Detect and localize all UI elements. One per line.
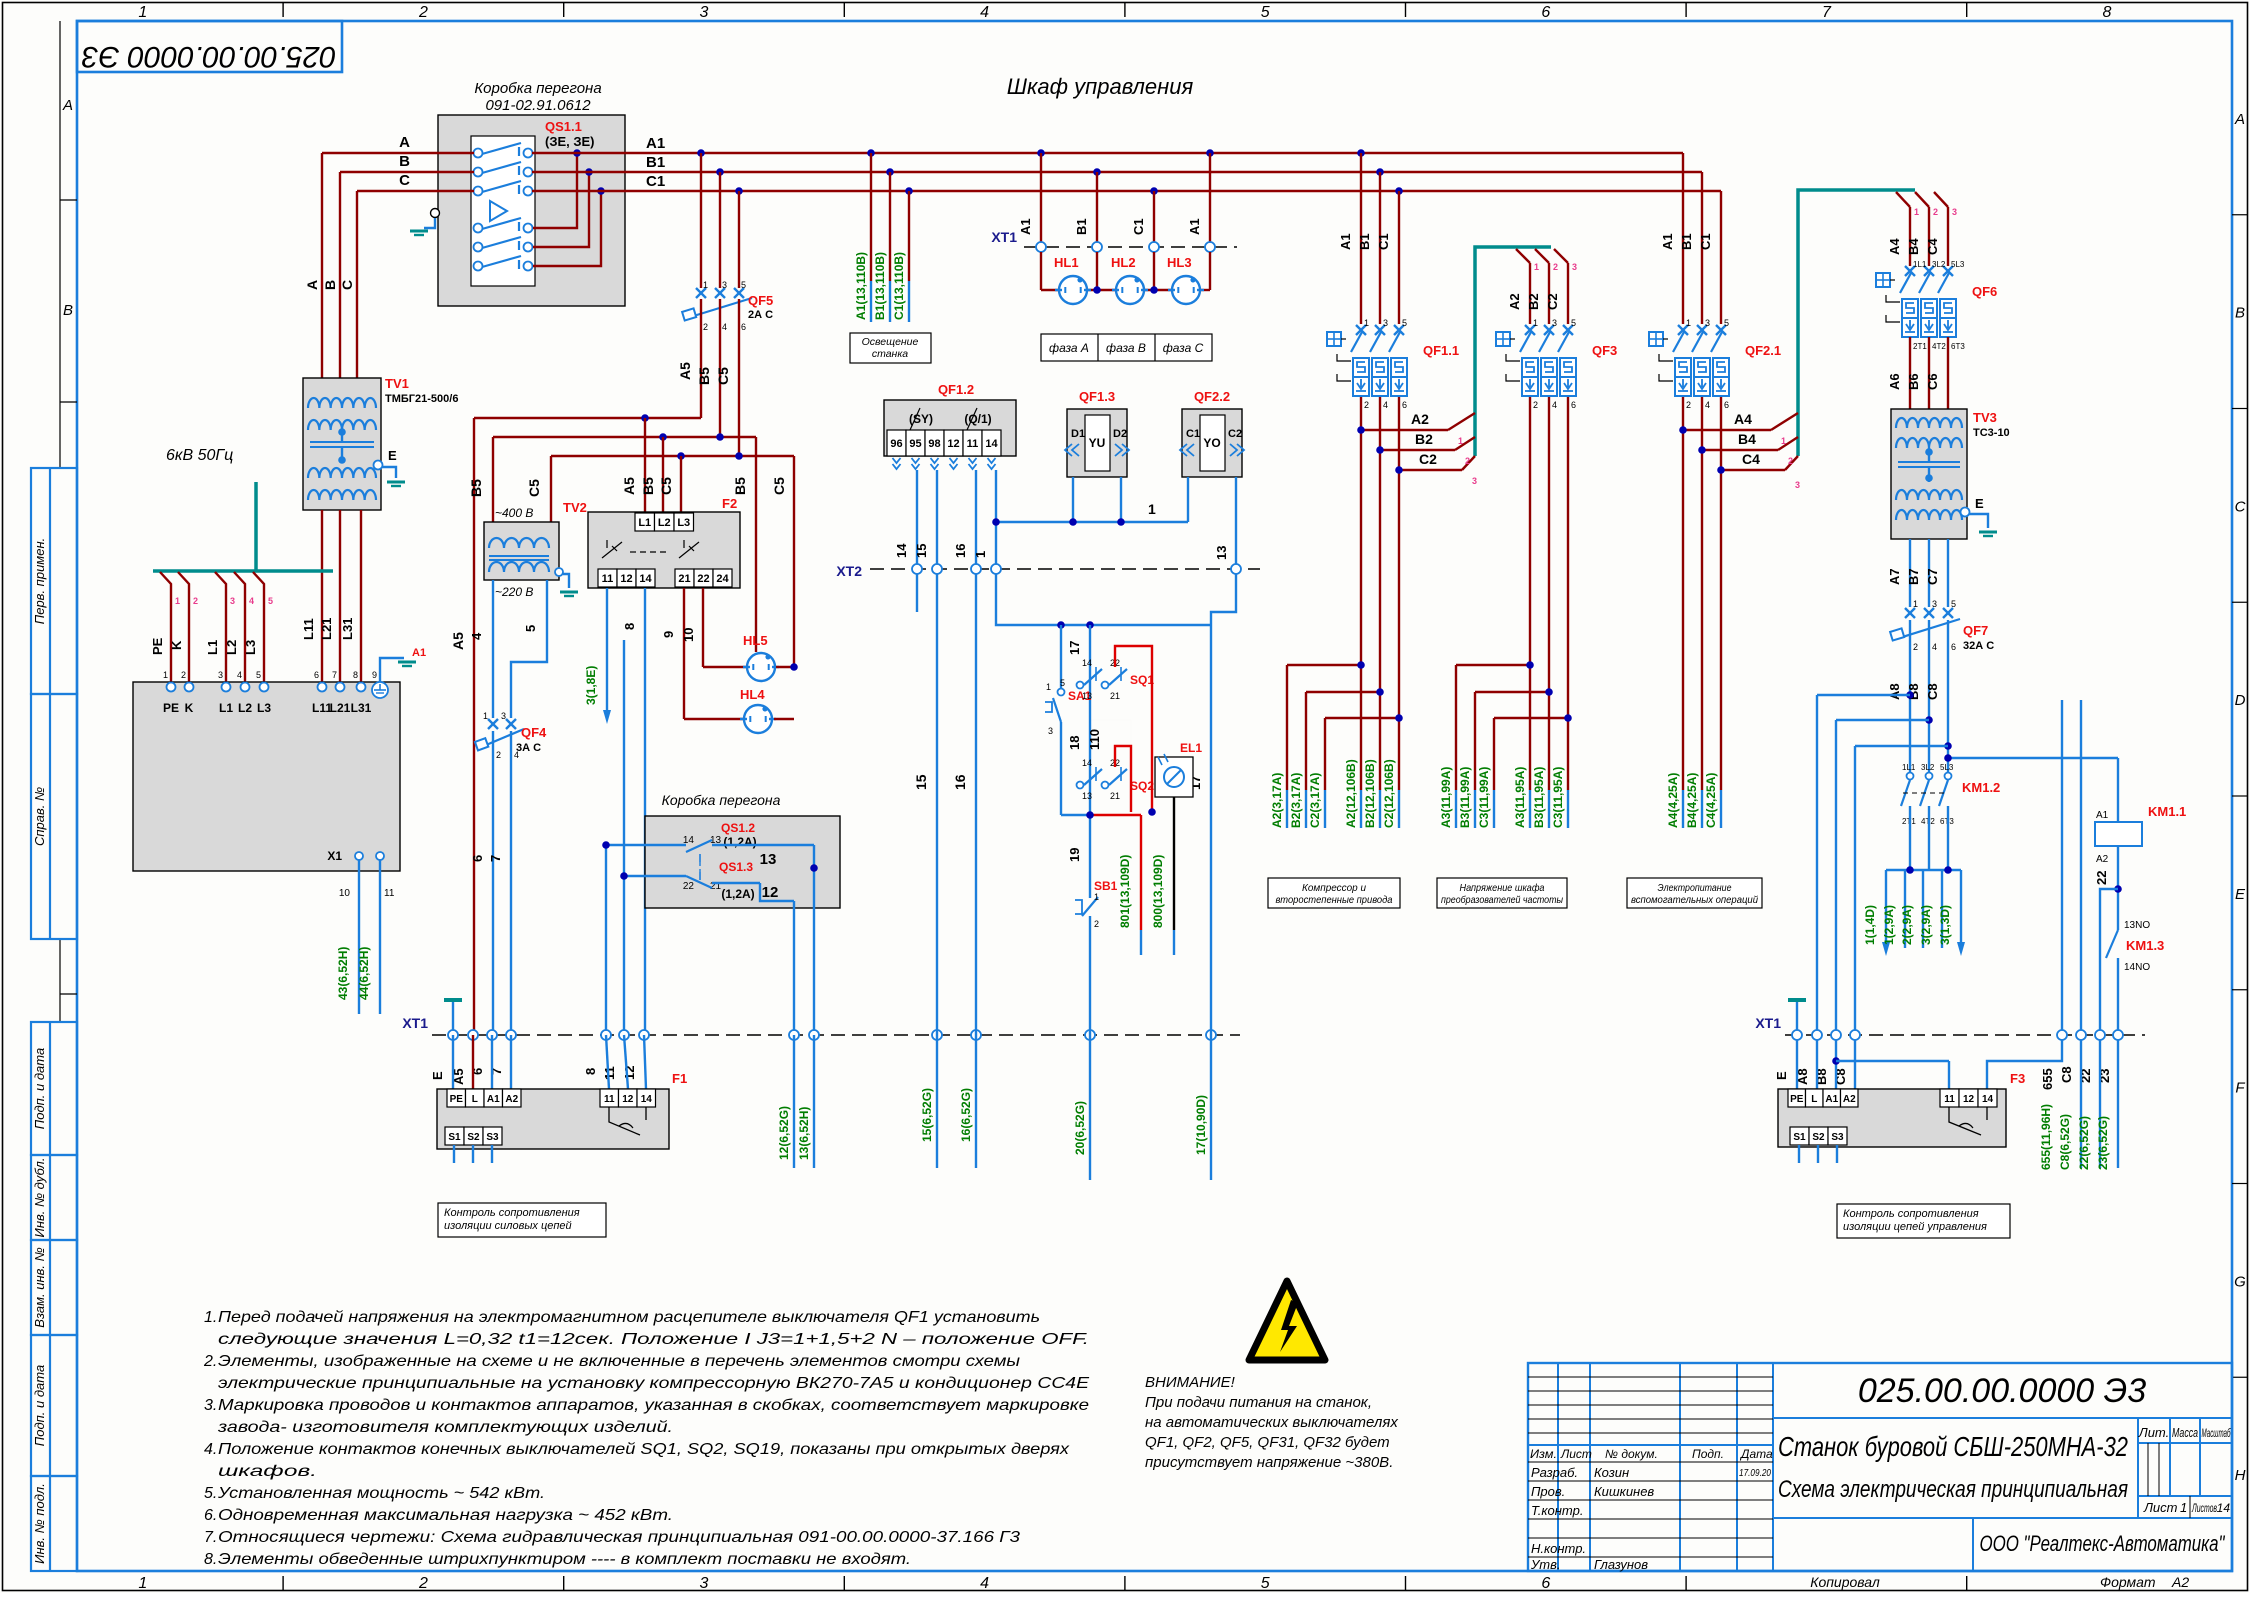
svg-text:5.: 5. bbox=[204, 1485, 217, 1502]
svg-text:PE: PE bbox=[150, 637, 165, 655]
svg-text:3А С: 3А С bbox=[516, 742, 541, 754]
svg-text:16: 16 bbox=[953, 544, 968, 558]
svg-text:B7: B7 bbox=[1906, 568, 1921, 585]
svg-text:D2: D2 bbox=[1113, 428, 1127, 440]
svg-text:11: 11 bbox=[1944, 1094, 1955, 1105]
svg-text:Контроль сопротивления: Контроль сопротивления bbox=[1843, 1208, 1979, 1220]
svg-text:10: 10 bbox=[339, 888, 351, 899]
svg-text:EL1: EL1 bbox=[1180, 741, 1202, 755]
svg-text:F: F bbox=[2235, 1080, 2245, 1097]
svg-text:A2(12,106B): A2(12,106B) bbox=[1344, 759, 1358, 828]
svg-text:1: 1 bbox=[1458, 436, 1463, 446]
svg-text:5: 5 bbox=[1724, 318, 1729, 328]
svg-text:6: 6 bbox=[314, 670, 319, 680]
svg-text:5: 5 bbox=[1261, 1575, 1270, 1592]
svg-text:B: B bbox=[2235, 305, 2245, 322]
svg-text:8: 8 bbox=[2103, 4, 2112, 21]
svg-text:1: 1 bbox=[175, 596, 180, 606]
svg-text:3(1,8E): 3(1,8E) bbox=[584, 666, 598, 705]
svg-text:3: 3 bbox=[1572, 262, 1577, 272]
svg-text:44(6,52H): 44(6,52H) bbox=[357, 947, 371, 1000]
svg-text:7: 7 bbox=[1822, 4, 1832, 21]
svg-text:Разраб.: Разраб. bbox=[1531, 1465, 1578, 1480]
svg-text:2: 2 bbox=[1553, 262, 1558, 272]
svg-text:A2: A2 bbox=[1507, 293, 1522, 310]
svg-text:(1,2А): (1,2А) bbox=[721, 887, 754, 901]
svg-text:13: 13 bbox=[1082, 691, 1092, 701]
svg-text:6T3: 6T3 bbox=[1951, 342, 1965, 351]
svg-text:3L2: 3L2 bbox=[1932, 260, 1946, 269]
svg-text:F2: F2 bbox=[722, 496, 737, 511]
svg-text:E: E bbox=[2235, 886, 2246, 903]
svg-text:5: 5 bbox=[1402, 318, 1407, 328]
svg-text:Контроль сопротивления: Контроль сопротивления bbox=[444, 1207, 580, 1219]
svg-text:95: 95 bbox=[909, 438, 921, 450]
svg-text:12: 12 bbox=[762, 884, 779, 901]
svg-text:A6: A6 bbox=[1887, 373, 1902, 390]
svg-text:15: 15 bbox=[913, 774, 929, 790]
svg-text:C1: C1 bbox=[1131, 218, 1146, 235]
svg-text:6: 6 bbox=[1402, 400, 1407, 410]
svg-text:7: 7 bbox=[488, 855, 503, 862]
svg-text:B3(11,95A): B3(11,95A) bbox=[1532, 767, 1546, 828]
svg-text:3: 3 bbox=[1048, 726, 1053, 736]
svg-text:13: 13 bbox=[1214, 546, 1229, 560]
svg-text:A: A bbox=[304, 280, 320, 290]
svg-text:XT2: XT2 bbox=[836, 563, 862, 579]
svg-text:Маркировка проводов и контакто: Маркировка проводов и контактов аппарато… bbox=[218, 1397, 1089, 1414]
svg-text:12: 12 bbox=[622, 1094, 634, 1105]
svg-text:11: 11 bbox=[967, 438, 979, 450]
svg-text:C2: C2 bbox=[1419, 451, 1437, 467]
svg-text:SB1: SB1 bbox=[1094, 879, 1118, 893]
svg-text:преобразователей частоты: преобразователей частоты bbox=[1441, 894, 1563, 906]
svg-text:14: 14 bbox=[894, 543, 909, 558]
svg-text:15(6,52G): 15(6,52G) bbox=[920, 1088, 934, 1142]
svg-text:C6: C6 bbox=[1925, 373, 1940, 390]
svg-text:Одновременная максимальная наг: Одновременная максимальная нагрузка ~ 45… bbox=[218, 1507, 673, 1524]
svg-text:C5: C5 bbox=[658, 477, 674, 495]
svg-text:5: 5 bbox=[1060, 678, 1065, 688]
svg-text:A2(3,17A): A2(3,17A) bbox=[1270, 773, 1284, 828]
svg-text:2: 2 bbox=[1094, 919, 1099, 929]
svg-text:13(6,52H): 13(6,52H) bbox=[797, 1107, 811, 1160]
svg-text:5: 5 bbox=[1951, 599, 1956, 609]
svg-text:1: 1 bbox=[483, 711, 488, 721]
svg-text:2T1: 2T1 bbox=[1913, 342, 1927, 351]
svg-text:H: H bbox=[2235, 1467, 2246, 1484]
svg-text:1: 1 bbox=[1364, 318, 1369, 328]
svg-text:SQ1: SQ1 bbox=[1130, 673, 1154, 687]
svg-text:8.: 8. bbox=[204, 1551, 217, 1568]
svg-text:~400 В: ~400 В bbox=[495, 506, 533, 520]
svg-text:A1: A1 bbox=[412, 647, 426, 659]
svg-text:C1: C1 bbox=[1186, 428, 1200, 440]
svg-text:L2: L2 bbox=[224, 640, 239, 655]
svg-text:1: 1 bbox=[1913, 599, 1918, 609]
svg-text:C7: C7 bbox=[1925, 568, 1940, 585]
svg-text:Перв. примен.: Перв. примен. bbox=[32, 538, 47, 624]
svg-text:A1: A1 bbox=[487, 1094, 500, 1105]
svg-text:HL3: HL3 bbox=[1167, 255, 1192, 270]
svg-text:HL4: HL4 bbox=[740, 687, 765, 702]
svg-text:C5: C5 bbox=[715, 367, 731, 385]
svg-text:Лит.: Лит. bbox=[2138, 1425, 2169, 1440]
svg-text:3: 3 bbox=[218, 670, 223, 680]
svg-text:655(11,96H): 655(11,96H) bbox=[2039, 1104, 2053, 1170]
svg-text:3L2: 3L2 bbox=[1921, 763, 1935, 772]
svg-text:1: 1 bbox=[973, 551, 988, 558]
svg-text:22: 22 bbox=[683, 881, 695, 892]
svg-text:C2: C2 bbox=[1228, 428, 1242, 440]
svg-text:1: 1 bbox=[2180, 1500, 2187, 1515]
svg-text:B5: B5 bbox=[732, 477, 748, 495]
svg-text:F1: F1 bbox=[672, 1071, 687, 1086]
svg-text:Перед подачей напряжения на эл: Перед подачей напряжения на электромагни… bbox=[218, 1309, 1040, 1326]
svg-text:13NO: 13NO bbox=[2124, 920, 2150, 931]
svg-text:Схема электрическая принципиал: Схема электрическая принципиальная bbox=[1778, 1476, 2128, 1503]
svg-text:A1: A1 bbox=[1338, 233, 1353, 250]
svg-text:Освещение: Освещение bbox=[862, 336, 919, 348]
svg-text:6: 6 bbox=[1724, 400, 1729, 410]
svg-text:SQ2: SQ2 bbox=[1130, 779, 1154, 793]
svg-text:B1: B1 bbox=[1679, 233, 1694, 250]
svg-text:B1(13,110В): B1(13,110В) bbox=[873, 252, 887, 320]
svg-text:1: 1 bbox=[138, 4, 147, 21]
svg-text:L2: L2 bbox=[238, 701, 252, 715]
svg-text:3.: 3. bbox=[204, 1397, 217, 1414]
svg-text:21: 21 bbox=[678, 573, 690, 585]
svg-text:C8: C8 bbox=[2059, 1066, 2074, 1083]
svg-text:14: 14 bbox=[1082, 658, 1092, 668]
svg-text:KM1.3: KM1.3 bbox=[2126, 938, 2164, 953]
svg-text:HL5: HL5 bbox=[743, 633, 768, 648]
svg-text:1: 1 bbox=[138, 1575, 147, 1592]
svg-text:Станок буровой СБШ-250МНА-32: Станок буровой СБШ-250МНА-32 bbox=[1778, 1431, 2128, 1462]
svg-text:S1: S1 bbox=[1793, 1132, 1806, 1143]
svg-text:D: D bbox=[2235, 692, 2246, 709]
svg-text:43(6,52H): 43(6,52H) bbox=[336, 947, 350, 1000]
svg-text:16(6,52G): 16(6,52G) bbox=[959, 1088, 973, 1142]
svg-text:A2: A2 bbox=[1843, 1094, 1856, 1105]
svg-text:A4: A4 bbox=[1887, 238, 1902, 255]
svg-text:A2: A2 bbox=[505, 1094, 518, 1105]
svg-text:L11: L11 bbox=[301, 618, 316, 640]
svg-text:12(6,52G): 12(6,52G) bbox=[777, 1106, 791, 1160]
svg-text:Глазунов: Глазунов bbox=[1594, 1557, 1648, 1572]
svg-text:S2: S2 bbox=[1812, 1132, 1825, 1143]
svg-text:A7: A7 bbox=[1887, 568, 1902, 585]
svg-text:C8(6,52G): C8(6,52G) bbox=[2058, 1114, 2072, 1170]
svg-text:3: 3 bbox=[1552, 318, 1557, 328]
svg-text:Относящиеся чертежи: Схема гид: Относящиеся чертежи: Схема гидравлическа… bbox=[218, 1529, 1020, 1546]
svg-text:14: 14 bbox=[641, 1094, 653, 1105]
svg-text:20(6,52G): 20(6,52G) bbox=[1073, 1101, 1087, 1155]
svg-text:110: 110 bbox=[1087, 729, 1102, 750]
svg-text:D1: D1 bbox=[1071, 428, 1085, 440]
svg-text:QF1, QF2, QF5, QF31, QF32 буде: QF1, QF2, QF5, QF31, QF32 будет bbox=[1145, 1434, 1390, 1451]
svg-text:А2: А2 bbox=[2171, 1574, 2189, 1590]
svg-text:17: 17 bbox=[1067, 641, 1082, 655]
svg-text:A4(4,25A): A4(4,25A) bbox=[1666, 773, 1680, 828]
svg-text:1(1,4D): 1(1,4D) bbox=[1863, 905, 1877, 945]
svg-text:B5: B5 bbox=[640, 477, 656, 495]
svg-text:L1: L1 bbox=[219, 701, 233, 715]
svg-text:Инв. № подл.: Инв. № подл. bbox=[32, 1483, 47, 1564]
svg-text:5L3: 5L3 bbox=[1951, 260, 1965, 269]
svg-text:S3: S3 bbox=[486, 1132, 499, 1143]
svg-text:XT1: XT1 bbox=[1755, 1015, 1781, 1031]
svg-text:11: 11 bbox=[384, 888, 395, 899]
svg-text:F3: F3 bbox=[2010, 1071, 2025, 1086]
svg-text:12: 12 bbox=[620, 573, 632, 585]
svg-text:B1: B1 bbox=[1357, 233, 1372, 250]
svg-text:L2: L2 bbox=[658, 517, 671, 529]
svg-text:14: 14 bbox=[1082, 758, 1092, 768]
svg-text:L: L bbox=[1811, 1094, 1817, 1105]
svg-text:A1: A1 bbox=[1018, 218, 1033, 235]
svg-text:B4(4,25A): B4(4,25A) bbox=[1685, 773, 1699, 828]
svg-text:вспомогательных операций: вспомогательных операций bbox=[1631, 894, 1758, 906]
svg-text:A1(13,110В): A1(13,110В) bbox=[854, 252, 868, 320]
svg-text:5: 5 bbox=[268, 596, 273, 606]
svg-text:5: 5 bbox=[523, 625, 538, 632]
svg-text:1: 1 bbox=[1914, 207, 1919, 217]
svg-text:5L3: 5L3 bbox=[1940, 763, 1954, 772]
svg-text:B2: B2 bbox=[1415, 431, 1433, 447]
svg-text:№ докум.: № докум. bbox=[1605, 1447, 1658, 1461]
svg-text:Взам. инв. №: Взам. инв. № bbox=[32, 1247, 47, 1327]
svg-text:Формат: Формат bbox=[2100, 1574, 2156, 1590]
svg-text:7: 7 bbox=[332, 670, 337, 680]
svg-text:A5: A5 bbox=[621, 477, 637, 495]
svg-text:2А С: 2А С bbox=[748, 309, 773, 321]
svg-text:1: 1 bbox=[1781, 436, 1786, 446]
svg-text:L3: L3 bbox=[243, 640, 258, 655]
svg-text:Инв. № дубл.: Инв. № дубл. bbox=[32, 1158, 47, 1238]
svg-text:3: 3 bbox=[1383, 318, 1388, 328]
svg-text:23(6,52G): 23(6,52G) bbox=[2096, 1116, 2110, 1170]
svg-text:XT1: XT1 bbox=[991, 229, 1017, 245]
svg-text:QS1.1: QS1.1 bbox=[545, 119, 582, 134]
svg-text:14NO: 14NO bbox=[2124, 962, 2150, 973]
svg-text:Электропитание: Электропитание bbox=[1658, 882, 1732, 894]
svg-text:2: 2 bbox=[1686, 400, 1691, 410]
svg-text:4: 4 bbox=[249, 596, 254, 606]
svg-text:6.: 6. bbox=[204, 1507, 217, 1524]
svg-text:091-02.91.0612: 091-02.91.0612 bbox=[485, 97, 591, 114]
svg-text:801(13,109D): 801(13,109D) bbox=[1118, 855, 1132, 928]
svg-text:Масса: Масса bbox=[2172, 1425, 2198, 1440]
svg-text:5: 5 bbox=[256, 670, 261, 680]
svg-text:следующие значения L=0,32 t1: следующие значения L=0,32 t1=12сек. Поло… bbox=[218, 1331, 1089, 1348]
svg-text:2: 2 bbox=[703, 322, 708, 332]
svg-text:A1: A1 bbox=[1825, 1094, 1838, 1105]
svg-text:QS1.2: QS1.2 bbox=[721, 821, 755, 835]
svg-text:5: 5 bbox=[1261, 4, 1270, 21]
svg-text:электрические принципиальные н: электрические принципиальные на установк… bbox=[218, 1375, 1089, 1392]
svg-text:2: 2 bbox=[193, 596, 198, 606]
svg-text:14: 14 bbox=[639, 573, 652, 585]
svg-text:6кВ 50Гц: 6кВ 50Гц bbox=[166, 447, 233, 464]
svg-text:Лист: Лист bbox=[1560, 1447, 1592, 1461]
svg-text:3: 3 bbox=[1932, 599, 1937, 609]
svg-text:4: 4 bbox=[980, 4, 989, 21]
svg-text:3: 3 bbox=[1472, 476, 1477, 486]
svg-text:1: 1 bbox=[1533, 318, 1538, 328]
svg-text:Н.контр.: Н.контр. bbox=[1531, 1541, 1586, 1556]
svg-text:32А С: 32А С bbox=[1963, 640, 1994, 652]
svg-text:фаза С: фаза С bbox=[1163, 341, 1204, 355]
svg-text:QF1.1: QF1.1 bbox=[1423, 343, 1459, 358]
svg-text:XT1: XT1 bbox=[402, 1015, 428, 1031]
svg-text:A4: A4 bbox=[1734, 411, 1752, 427]
svg-text:A: A bbox=[62, 97, 73, 114]
svg-text:B1: B1 bbox=[646, 154, 665, 171]
svg-text:HL2: HL2 bbox=[1111, 255, 1136, 270]
svg-text:5: 5 bbox=[741, 280, 746, 290]
svg-text:G: G bbox=[2234, 1273, 2246, 1290]
svg-text:QF7: QF7 bbox=[1963, 623, 1988, 638]
svg-text:K: K bbox=[185, 701, 194, 715]
svg-text:12: 12 bbox=[622, 1066, 637, 1080]
svg-text:655: 655 bbox=[2040, 1068, 2055, 1090]
svg-text:Лист: Лист bbox=[2143, 1500, 2178, 1515]
svg-text:QF2.2: QF2.2 bbox=[1194, 389, 1230, 404]
svg-text:2: 2 bbox=[181, 670, 186, 680]
svg-text:Козин: Козин bbox=[1594, 1465, 1629, 1480]
svg-text:L31: L31 bbox=[351, 701, 372, 715]
svg-text:2: 2 bbox=[1364, 400, 1369, 410]
svg-text:8: 8 bbox=[353, 670, 358, 680]
svg-text:C8: C8 bbox=[1925, 683, 1940, 700]
svg-text:C4(4,25A): C4(4,25A) bbox=[1704, 773, 1718, 828]
svg-text:6: 6 bbox=[1541, 1575, 1550, 1592]
svg-text:Масштаб: Масштаб bbox=[2202, 1426, 2232, 1440]
svg-text:3: 3 bbox=[700, 1575, 709, 1592]
svg-text:Элементы, изображенные на схем: Элементы, изображенные на схеме и не вкл… bbox=[218, 1353, 1020, 1370]
svg-text:22(6,52G): 22(6,52G) bbox=[2077, 1116, 2091, 1170]
svg-text:PE: PE bbox=[450, 1094, 464, 1105]
svg-text:Дата: Дата bbox=[1739, 1447, 1773, 1461]
svg-text:фаза А: фаза А bbox=[1049, 341, 1089, 355]
svg-text:C1: C1 bbox=[1698, 233, 1713, 250]
svg-text:C2: C2 bbox=[1545, 293, 1560, 310]
svg-text:S1: S1 bbox=[448, 1132, 461, 1143]
svg-text:10: 10 bbox=[681, 628, 696, 642]
svg-text:B: B bbox=[322, 280, 338, 290]
svg-text:4: 4 bbox=[469, 632, 484, 640]
svg-text:15: 15 bbox=[914, 544, 929, 558]
svg-text:025.00.00.0000 Э3: 025.00.00.0000 Э3 bbox=[82, 40, 337, 73]
svg-text:A1: A1 bbox=[646, 135, 665, 152]
svg-text:C4: C4 bbox=[1925, 238, 1940, 255]
svg-text:B6: B6 bbox=[1906, 373, 1921, 390]
svg-text:A2: A2 bbox=[2096, 854, 2109, 865]
svg-text:6: 6 bbox=[741, 322, 746, 332]
svg-text:Коробка перегона: Коробка перегона bbox=[662, 792, 781, 808]
svg-text:1: 1 bbox=[1686, 318, 1691, 328]
svg-text:3: 3 bbox=[722, 280, 727, 290]
svg-text:C: C bbox=[2235, 498, 2246, 515]
svg-text:6: 6 bbox=[470, 855, 485, 862]
svg-text:QF1.3: QF1.3 bbox=[1079, 389, 1115, 404]
svg-text:E: E bbox=[1975, 496, 1984, 511]
svg-text:завода- изготовителя комплекту: завода- изготовителя комплектующих издел… bbox=[217, 1419, 673, 1436]
svg-text:16: 16 bbox=[952, 774, 968, 790]
svg-text:L3: L3 bbox=[257, 701, 271, 715]
svg-text:A2: A2 bbox=[1411, 411, 1429, 427]
svg-text:12: 12 bbox=[947, 438, 959, 450]
svg-text:X1: X1 bbox=[327, 849, 342, 863]
svg-text:B4: B4 bbox=[1906, 238, 1921, 255]
svg-text:2: 2 bbox=[1788, 456, 1793, 466]
svg-text:K: K bbox=[169, 640, 184, 650]
svg-text:C5: C5 bbox=[771, 477, 787, 495]
svg-text:Копировал: Копировал bbox=[1810, 1574, 1880, 1590]
svg-text:2: 2 bbox=[1533, 400, 1538, 410]
svg-text:2: 2 bbox=[418, 1575, 428, 1592]
svg-text:4: 4 bbox=[980, 1575, 989, 1592]
svg-text:2: 2 bbox=[496, 750, 501, 760]
svg-text:B1: B1 bbox=[1074, 218, 1089, 235]
svg-text:1: 1 bbox=[1046, 682, 1051, 692]
svg-text:шкафов.: шкафов. bbox=[218, 1463, 317, 1480]
svg-text:C5: C5 bbox=[526, 479, 542, 497]
svg-text:4: 4 bbox=[722, 322, 727, 332]
svg-text:изоляции цепей управления: изоляции цепей управления bbox=[1843, 1221, 1987, 1233]
svg-text:17.09.20: 17.09.20 bbox=[1739, 1468, 1771, 1479]
svg-text:4: 4 bbox=[1552, 400, 1557, 410]
svg-text:4: 4 bbox=[237, 670, 242, 680]
svg-text:S3: S3 bbox=[1831, 1132, 1844, 1143]
svg-text:3: 3 bbox=[1952, 207, 1957, 217]
svg-text:L: L bbox=[472, 1094, 478, 1105]
svg-text:C: C bbox=[339, 280, 355, 290]
svg-text:(1,2А): (1,2А) bbox=[723, 835, 756, 849]
svg-text:Подп. и дата: Подп. и дата bbox=[32, 1365, 47, 1446]
svg-text:L21: L21 bbox=[330, 701, 351, 715]
svg-text:второстепенные привода: второстепенные привода bbox=[1276, 894, 1393, 906]
svg-text:1: 1 bbox=[703, 280, 708, 290]
svg-text:ТМБГ21-500/6: ТМБГ21-500/6 bbox=[385, 393, 458, 405]
svg-text:2: 2 bbox=[1465, 456, 1470, 466]
svg-text:S2: S2 bbox=[467, 1132, 480, 1143]
svg-text:QF1.2: QF1.2 bbox=[938, 382, 974, 397]
svg-text:1.: 1. bbox=[204, 1309, 217, 1326]
svg-text:При подачи питания на станок,: При подачи питания на станок, bbox=[1145, 1394, 1372, 1411]
svg-text:E: E bbox=[430, 1071, 445, 1080]
svg-text:C3(11,99A): C3(11,99A) bbox=[1477, 767, 1491, 828]
svg-text:Шкаф управления: Шкаф управления bbox=[1007, 74, 1194, 99]
svg-text:5: 5 bbox=[1571, 318, 1576, 328]
svg-text:Справ. №: Справ. № bbox=[32, 787, 47, 846]
svg-text:A3(11,95A): A3(11,95A) bbox=[1513, 767, 1527, 828]
svg-text:A5: A5 bbox=[677, 362, 693, 380]
svg-text:TV3: TV3 bbox=[1973, 410, 1997, 425]
svg-text:Положение контактов конечных в: Положение контактов конечных выключателе… bbox=[218, 1441, 1070, 1458]
svg-text:HL1: HL1 bbox=[1054, 255, 1079, 270]
svg-text:B2(12,106B): B2(12,106B) bbox=[1363, 759, 1377, 828]
svg-text:11: 11 bbox=[604, 1094, 615, 1105]
svg-text:9: 9 bbox=[661, 631, 676, 638]
svg-text:Утв.: Утв. bbox=[1530, 1557, 1561, 1572]
svg-text:3: 3 bbox=[501, 711, 506, 721]
svg-text:12: 12 bbox=[1963, 1094, 1975, 1105]
svg-text:B2(3,17A): B2(3,17A) bbox=[1289, 773, 1303, 828]
svg-text:4: 4 bbox=[1705, 400, 1710, 410]
svg-text:E: E bbox=[1774, 1071, 1789, 1080]
